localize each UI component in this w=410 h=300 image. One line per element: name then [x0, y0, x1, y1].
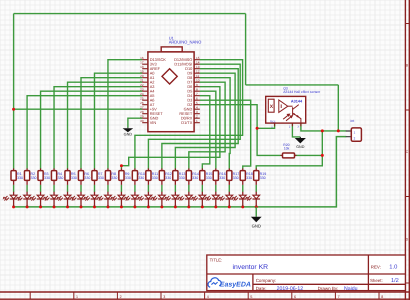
- svg-text:330: 330: [111, 176, 117, 180]
- svg-text:VIN: VIN: [150, 120, 157, 125]
- svg-text:330: 330: [260, 176, 266, 180]
- wire: [321, 131, 323, 156]
- svg-text:6: 6: [294, 295, 296, 299]
- junction: [12, 108, 15, 111]
- svg-text:330: 330: [138, 176, 144, 180]
- svg-text:17: 17: [140, 61, 144, 65]
- svg-text:15: 15: [196, 56, 200, 60]
- svg-text:2019-06-12: 2019-06-12: [277, 286, 304, 292]
- LED D13: [165, 192, 179, 207]
- resistor R2: [24, 168, 29, 185]
- svg-text:R9: R9: [125, 172, 130, 176]
- svg-text:18: 18: [140, 65, 144, 69]
- svg-text:D: D: [406, 238, 409, 242]
- wire: [68, 82, 143, 168]
- svg-text:6: 6: [196, 97, 198, 101]
- junction: [174, 205, 177, 208]
- junction: [53, 205, 56, 208]
- svg-text:3: 3: [196, 110, 198, 114]
- svg-text:13: 13: [196, 65, 200, 69]
- wire: [201, 185, 203, 192]
- wire: [128, 118, 142, 127]
- svg-text:R12: R12: [165, 172, 172, 176]
- svg-text:R17: R17: [233, 172, 240, 176]
- svg-text:1.0: 1.0: [389, 264, 397, 271]
- LED D14: [178, 192, 192, 207]
- svg-text:12: 12: [196, 70, 200, 74]
- svg-text:R11: R11: [152, 172, 158, 176]
- wire: [228, 185, 230, 192]
- svg-text:2: 2: [196, 115, 198, 119]
- resistor R5: [65, 168, 70, 185]
- svg-text:A3144 Hall effect sensor: A3144 Hall effect sensor: [283, 90, 321, 94]
- junction: [321, 154, 324, 157]
- svg-text:int: int: [351, 119, 355, 123]
- wire: [175, 73, 235, 168]
- svg-text:A3144: A3144: [291, 99, 303, 103]
- svg-text:28: 28: [140, 110, 144, 114]
- junction: [241, 205, 244, 208]
- LED D4: [43, 192, 57, 207]
- resistor R16: [213, 168, 218, 185]
- svg-text:20: 20: [140, 74, 144, 78]
- svg-text:Vcc: Vcc: [270, 119, 276, 123]
- svg-text:330: 330: [165, 176, 171, 180]
- junction: [147, 205, 150, 208]
- EasyEDA logo: [208, 278, 221, 287]
- wire: [107, 185, 109, 192]
- svg-text:24: 24: [140, 92, 144, 96]
- svg-text:8: 8: [196, 88, 198, 92]
- resistor R18: [240, 168, 245, 185]
- svg-text:330: 330: [57, 176, 63, 180]
- wire: [93, 185, 95, 192]
- svg-text:Naidu: Naidu: [344, 286, 358, 292]
- junction: [321, 129, 324, 132]
- junction: [201, 205, 204, 208]
- wire: [27, 96, 142, 169]
- svg-text:330: 330: [30, 176, 36, 180]
- svg-text:27: 27: [140, 106, 144, 110]
- LED D2: [16, 192, 30, 207]
- LED D11: [138, 192, 152, 207]
- wire: [200, 105, 281, 156]
- svg-text:11: 11: [196, 74, 199, 78]
- junction: [187, 205, 190, 208]
- svg-text:ARDUINO_NANO: ARDUINO_NANO: [169, 39, 202, 44]
- LED D19: [246, 192, 260, 207]
- wire: [242, 185, 244, 192]
- junction: [80, 205, 83, 208]
- wire: [13, 185, 15, 192]
- wire: [301, 123, 346, 131]
- wire: [14, 137, 347, 207]
- junction: [255, 205, 258, 208]
- title block: [207, 255, 406, 291]
- svg-text:10k: 10k: [284, 147, 290, 151]
- resistor R19: [254, 168, 259, 185]
- LED D10: [124, 192, 138, 207]
- wire: [134, 185, 136, 192]
- svg-text:R14: R14: [192, 172, 199, 176]
- LED D17: [219, 192, 233, 207]
- resistor R20: [281, 154, 297, 156]
- resistor R10: [132, 168, 137, 185]
- svg-text:330: 330: [84, 176, 90, 180]
- svg-text:9: 9: [196, 83, 198, 87]
- svg-text:R2: R2: [30, 172, 35, 176]
- wire: [14, 108, 143, 110]
- svg-text:19: 19: [140, 70, 144, 74]
- svg-text:R3: R3: [44, 172, 49, 176]
- svg-text:2: 2: [120, 295, 122, 299]
- svg-text:R18: R18: [246, 172, 253, 176]
- wire: [200, 96, 210, 169]
- svg-text:EasyEDA: EasyEDA: [220, 282, 251, 289]
- ground (bus): [251, 207, 262, 229]
- wire: [26, 185, 28, 192]
- svg-text:4: 4: [207, 295, 209, 299]
- LED D18: [232, 192, 246, 207]
- svg-text:29: 29: [140, 115, 144, 119]
- junction: [133, 205, 136, 208]
- svg-text:TITLE:: TITLE:: [210, 258, 223, 263]
- resistor R14: [186, 168, 191, 185]
- svg-text:GND: GND: [124, 132, 133, 136]
- svg-text:330: 330: [206, 176, 212, 180]
- svg-text:7: 7: [338, 295, 340, 299]
- resistor R7: [92, 168, 97, 185]
- svg-text:REV:: REV:: [371, 264, 381, 269]
- svg-text:R8: R8: [111, 172, 116, 176]
- LED D12: [151, 192, 165, 207]
- junction: [26, 205, 29, 208]
- wire: [292, 123, 300, 137]
- svg-text:330: 330: [17, 176, 23, 180]
- wire: [162, 69, 238, 169]
- svg-text:Sheet:: Sheet:: [370, 278, 383, 283]
- wire: [81, 78, 142, 169]
- svg-text:Drawn By:: Drawn By:: [318, 286, 339, 291]
- svg-text:330: 330: [71, 176, 77, 180]
- wire: [188, 185, 190, 192]
- ground (hall): [295, 137, 306, 149]
- svg-text:R10: R10: [138, 172, 145, 176]
- wire: [256, 155, 322, 168]
- junction: [12, 205, 15, 208]
- resistor R13: [173, 168, 178, 185]
- svg-text:Date:: Date:: [256, 286, 267, 291]
- wire: [161, 185, 163, 192]
- wire: [67, 185, 69, 192]
- svg-text:5: 5: [250, 295, 252, 299]
- svg-text:R6: R6: [84, 172, 89, 176]
- resistor R6: [78, 168, 83, 185]
- resistor R4: [51, 168, 56, 185]
- junction: [120, 205, 123, 208]
- wire: [200, 78, 230, 169]
- wire: [14, 13, 246, 15]
- svg-text:25: 25: [140, 97, 144, 101]
- ground (chip): [123, 128, 134, 137]
- LED D9: [111, 192, 125, 207]
- wire: [295, 154, 323, 156]
- junction: [214, 205, 217, 208]
- resistor R15: [200, 168, 205, 185]
- LED D8: [97, 192, 111, 207]
- wire: [245, 14, 247, 85]
- svg-text:8: 8: [381, 295, 383, 299]
- resistor R3: [38, 168, 43, 185]
- svg-text:330: 330: [246, 176, 252, 180]
- svg-text:22: 22: [140, 83, 144, 87]
- svg-text:26: 26: [140, 101, 144, 105]
- LED D7: [84, 192, 98, 207]
- resistor R17: [227, 168, 232, 185]
- svg-text:GND: GND: [252, 224, 261, 229]
- LED D6: [70, 192, 84, 207]
- svg-text:330: 330: [44, 176, 50, 180]
- wire: [246, 84, 339, 86]
- svg-text:inventor KR: inventor KR: [233, 264, 269, 271]
- svg-text:R4: R4: [57, 172, 62, 176]
- wire: [147, 185, 149, 192]
- wire: [255, 185, 257, 192]
- wire: [41, 91, 143, 168]
- LED D3: [30, 192, 44, 207]
- junction: [256, 127, 259, 130]
- resistor R1: [11, 168, 16, 185]
- junction: [39, 205, 42, 208]
- wire: [135, 60, 243, 169]
- svg-text:330: 330: [179, 176, 185, 180]
- junction: [120, 164, 123, 167]
- LED D5: [57, 192, 71, 207]
- wire: [120, 185, 122, 192]
- svg-text:330: 330: [125, 176, 131, 180]
- svg-text:3: 3: [163, 295, 165, 299]
- wire: [257, 123, 275, 128]
- svg-text:330: 330: [192, 176, 198, 180]
- svg-text:4: 4: [196, 106, 198, 110]
- junction: [228, 205, 231, 208]
- svg-text:D1/TX: D1/TX: [181, 120, 192, 125]
- svg-text:5: 5: [196, 101, 198, 105]
- LED D1: [3, 192, 17, 207]
- svg-text:330: 330: [233, 176, 239, 180]
- svg-text:23: 23: [140, 88, 144, 92]
- wire: [40, 185, 42, 192]
- wire: [53, 185, 55, 192]
- resistor R12: [159, 168, 164, 185]
- wire: [189, 82, 225, 168]
- U1 pin stubs: [142, 60, 200, 123]
- svg-text:R15: R15: [206, 172, 213, 176]
- svg-text:R19: R19: [260, 172, 267, 176]
- svg-text:330: 330: [219, 176, 225, 180]
- svg-text:1: 1: [196, 119, 198, 123]
- svg-text:10: 10: [196, 79, 200, 83]
- svg-text:7: 7: [196, 92, 198, 96]
- svg-text:R7: R7: [98, 172, 103, 176]
- svg-text:R13: R13: [179, 172, 186, 176]
- svg-text:16: 16: [140, 56, 144, 60]
- svg-text:GND: GND: [296, 145, 305, 149]
- svg-text:R1: R1: [17, 172, 22, 176]
- svg-text:1: 1: [76, 295, 78, 299]
- junction: [106, 205, 109, 208]
- LED D16: [205, 192, 219, 207]
- resistor R8: [105, 168, 110, 185]
- resistor R9: [119, 168, 124, 185]
- svg-text:330: 330: [98, 176, 104, 180]
- LED D15: [192, 192, 206, 207]
- frame border: [404, 0, 406, 300]
- svg-text:14: 14: [196, 61, 200, 65]
- wire: [13, 14, 15, 169]
- junction: [160, 205, 163, 208]
- svg-text:1/2: 1/2: [391, 277, 399, 284]
- wire: [148, 64, 240, 168]
- wire: [200, 100, 251, 168]
- svg-text:R5: R5: [71, 172, 76, 176]
- svg-text:330: 330: [152, 176, 158, 180]
- wire: [54, 87, 142, 169]
- svg-text:R16: R16: [219, 172, 226, 176]
- svg-text:Company:: Company:: [256, 278, 277, 283]
- wire: [80, 185, 82, 192]
- junction: [93, 205, 96, 208]
- svg-text:21: 21: [140, 79, 144, 83]
- wire: [94, 73, 142, 168]
- wire: [174, 185, 176, 192]
- junction: [66, 205, 69, 208]
- svg-text:30: 30: [140, 119, 144, 123]
- wire: [108, 60, 142, 169]
- wire: [200, 91, 216, 168]
- wire: [215, 185, 217, 192]
- wire: [121, 87, 219, 169]
- resistor R11: [146, 168, 151, 185]
- svg-text:C: C: [406, 150, 409, 154]
- junction: [337, 129, 340, 132]
- wire: [337, 85, 339, 131]
